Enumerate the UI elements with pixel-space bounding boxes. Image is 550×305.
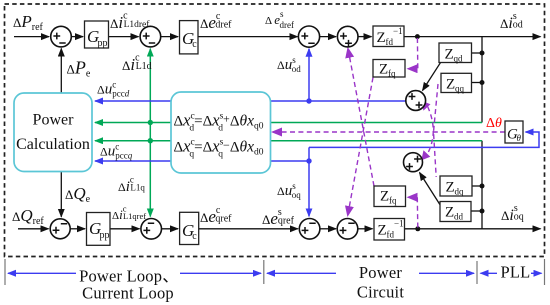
svg-text:Δucpccd: Δucpccd [97, 80, 130, 99]
svg-text:qd: qd [454, 54, 464, 64]
svg-text:fq: fq [389, 196, 397, 206]
svg-text:Z: Z [379, 62, 388, 78]
svg-text:fd: fd [386, 37, 394, 47]
svg-text:−1: −1 [394, 219, 404, 229]
svg-text:ΔicL1q: ΔicL1q [118, 175, 145, 196]
svg-text:−1: −1 [393, 26, 403, 36]
svg-text:Δusoq: Δusoq [277, 181, 301, 200]
svg-text:c: c [192, 39, 197, 50]
svg-text:ΔicL1qref: ΔicL1qref [112, 204, 146, 223]
svg-text:ΔicL1d: ΔicL1d [122, 53, 152, 75]
svg-text:ΔPe: ΔPe [67, 58, 91, 80]
svg-text:Z: Z [377, 30, 386, 46]
svg-text:Z: Z [380, 189, 389, 205]
svg-text:qq: qq [455, 84, 465, 94]
svg-text:Δecdref: Δecdref [200, 11, 232, 32]
svg-text:ΔQref: ΔQref [12, 206, 44, 227]
svg-text:Current Loop: Current Loop [82, 284, 174, 303]
svg-text:Δθ: Δθ [486, 116, 502, 131]
svg-text:Δusod: Δusod [277, 55, 301, 74]
svg-text:ΔPref: ΔPref [13, 12, 44, 33]
svg-text:Power: Power [33, 112, 75, 129]
svg-text:dq: dq [455, 187, 465, 197]
svg-text:Circuit: Circuit [357, 283, 404, 302]
svg-text:Δisoq: Δisoq [501, 203, 524, 224]
svg-text:dd: dd [454, 212, 464, 222]
svg-text:Z: Z [446, 77, 455, 93]
svg-text:Z: Z [445, 205, 454, 221]
svg-text:Power: Power [359, 263, 402, 282]
svg-text:Z: Z [378, 223, 387, 239]
svg-text:PLL: PLL [501, 263, 531, 282]
svg-text:Δesqref: Δesqref [262, 207, 295, 228]
svg-text:Z: Z [445, 47, 454, 63]
svg-text:fd: fd [387, 230, 395, 240]
svg-text:pp: pp [100, 230, 110, 241]
svg-text:Δucpccq: Δucpccq [100, 142, 133, 161]
svg-text:Δ esdref: Δ esdref [265, 9, 294, 30]
svg-text:fq: fq [388, 69, 396, 79]
svg-text:pp: pp [98, 38, 108, 49]
svg-text:Calculation: Calculation [16, 136, 90, 153]
svg-text:c: c [192, 231, 197, 242]
svg-text:ΔicL1dref: ΔicL1dref [110, 11, 150, 33]
svg-text:Δecqref: Δecqref [200, 205, 232, 226]
svg-text:Z: Z [446, 180, 455, 196]
svg-text:Δisod: Δisod [500, 11, 523, 32]
svg-text:ΔQe: ΔQe [65, 184, 91, 205]
svg-text:θ: θ [517, 133, 522, 143]
